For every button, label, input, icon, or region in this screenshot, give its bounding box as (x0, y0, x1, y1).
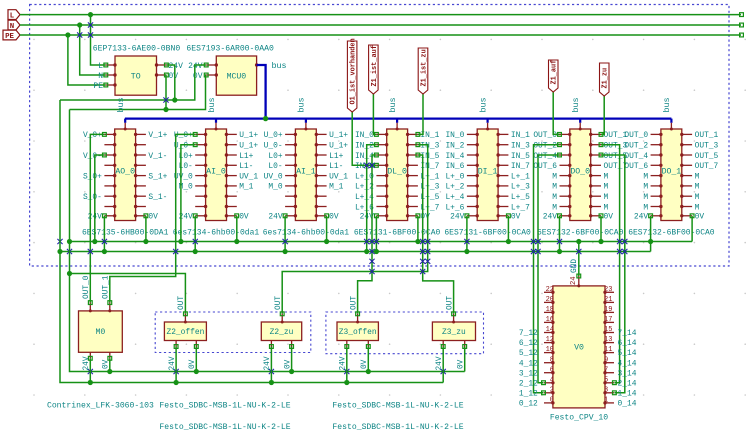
svg-text:PE: PE (93, 82, 103, 91)
wire 24V feeder left (60, 100, 443, 383)
svg-text:0V: 0V (239, 213, 249, 222)
svg-text:13: 13 (604, 336, 612, 344)
svg-text:N: N (98, 72, 103, 81)
svg-text:IN_4: IN_4 (445, 152, 464, 161)
V0 pin 16 (544, 321, 553, 323)
svg-text:V_1-: V_1- (148, 152, 167, 161)
Z2_offen pin OUT (184, 314, 186, 322)
svg-text:U_1+: U_1+ (239, 131, 258, 140)
rail junctions and crossings (102, 239, 107, 244)
global label PE (3, 30, 20, 40)
svg-text:S_0-: S_0- (83, 193, 102, 202)
svg-text:OUT_4: OUT_4 (624, 152, 648, 161)
bus wire MCU0 (257, 65, 266, 119)
svg-text:Z1_ist_auf: Z1_ist_auf (371, 45, 379, 86)
svg-text:24V: 24V (169, 62, 184, 71)
svg-text:11: 11 (604, 346, 612, 354)
svg-text:OUT_5: OUT_5 (695, 152, 719, 161)
svg-text:L+_3: L+_3 (511, 183, 530, 192)
sheet boundary dashed rectangle (30, 5, 729, 267)
svg-text:0V: 0V (604, 213, 614, 222)
svg-text:4: 4 (550, 376, 554, 384)
svg-text:S_1+: S_1+ (148, 172, 167, 181)
svg-text:bus: bus (297, 97, 307, 112)
wire GND to V0 pin 24 (578, 242, 580, 277)
svg-text:6es7134-6hb00-0da1: 6es7134-6hb00-0da1 (173, 228, 260, 237)
svg-text:Z1_zu: Z1_zu (602, 68, 610, 89)
svg-text:14: 14 (546, 326, 554, 334)
V0 pin 22 (544, 291, 553, 293)
svg-text:2_12: 2_12 (519, 379, 538, 388)
svg-text:3: 3 (604, 386, 608, 394)
svg-text:0V: 0V (420, 213, 430, 222)
wire 24V TO to MCU0 (166, 65, 174, 100)
sensor Z2_offen Festo_SDBC-MSB-1L-NU-K-2-LE (164, 322, 206, 341)
svg-text:L+_2: L+_2 (445, 183, 464, 192)
MCU0 pin 0V (206, 74, 216, 76)
svg-text:M: M (695, 183, 700, 192)
svg-text:1_12: 1_12 (519, 389, 538, 398)
TO pin 24V (157, 64, 167, 66)
TO pin N (106, 74, 115, 76)
svg-text:M: M (552, 203, 557, 212)
svg-text:9: 9 (604, 356, 608, 364)
V0 pin 13 (605, 342, 614, 344)
svg-text:DL_0: DL_0 (387, 167, 407, 176)
wire PE to TO (68, 35, 106, 85)
svg-text:6ES7132-6BF00-0CA0: 6ES7132-6BF00-0CA0 (628, 228, 715, 237)
valve terminal V0 Festo_CPV_10 (550, 286, 608, 423)
Z2_offen pin 0V (195, 341, 197, 347)
svg-text:V_1+: V_1+ (148, 131, 167, 140)
svg-text:bus: bus (478, 97, 488, 112)
svg-text:OUT_6: OUT_6 (533, 162, 557, 171)
svg-text:M: M (604, 203, 609, 212)
global label Z1_auf (549, 60, 559, 92)
junction N (77, 22, 82, 27)
svg-text:U_0-: U_0- (174, 142, 193, 151)
TO pin L (106, 64, 115, 66)
svg-text:Contrinex_LFK-3060-103: Contrinex_LFK-3060-103 (47, 402, 154, 411)
Z2_zu pin OUT (281, 314, 283, 322)
svg-text:0_12: 0_12 (519, 400, 538, 409)
wire N to TO (80, 25, 106, 75)
svg-text:bus: bus (116, 97, 126, 112)
svg-text:M: M (643, 172, 648, 181)
svg-text:M: M (604, 193, 609, 202)
global label Z1_ist_zu (418, 48, 428, 94)
svg-text:bus: bus (571, 97, 581, 112)
0V rail (70, 241, 693, 243)
svg-text:Festo_CPV_10: Festo_CPV_10 (550, 414, 608, 423)
svg-text:L+_7: L+_7 (511, 203, 530, 212)
svg-text:2_14: 2_14 (618, 379, 637, 388)
wire N (20, 24, 741, 26)
svg-text:M: M (643, 203, 648, 212)
svg-text:L+_0: L+_0 (445, 172, 464, 181)
module AI_0 6es7134-6hb00-0da1 (173, 97, 260, 237)
wire L (20, 14, 741, 16)
V0 connected pin squares (542, 381, 546, 385)
V0 pin 12 (544, 342, 553, 344)
bottom rails marks (88, 369, 93, 374)
svg-text:6ES7193-6AR00-0AA0: 6ES7193-6AR00-0AA0 (186, 45, 274, 54)
junction 0V (163, 107, 168, 112)
svg-text:24V: 24V (268, 213, 282, 222)
svg-text:IN_6: IN_6 (445, 162, 464, 171)
svg-text:L+_4: L+_4 (445, 193, 464, 202)
svg-text:OUT_1: OUT_1 (103, 275, 111, 299)
svg-text:4_14: 4_14 (618, 359, 637, 368)
svg-text:bus: bus (388, 97, 398, 112)
svg-text:12: 12 (546, 336, 554, 344)
V0 pin 18 (544, 311, 553, 313)
wire DO_0.OUT_3 to V0 pin 5 (601, 145, 620, 383)
svg-text:L1-: L1- (329, 162, 343, 171)
svg-text:0V: 0V (329, 213, 339, 222)
svg-text:TO: TO (131, 73, 141, 82)
svg-text:M: M (695, 193, 700, 202)
wire O1_ist_vorhanden to DL_0.IN_6 (352, 112, 376, 165)
svg-text:V_0-: V_0- (83, 152, 102, 161)
svg-text:0: 0 (550, 397, 554, 405)
svg-text:0V: 0V (169, 72, 179, 81)
svg-text:10: 10 (546, 346, 554, 354)
svg-text:L+_1: L+_1 (511, 172, 530, 181)
wire Z1_ist_zu to DL_0.IN_1 (418, 94, 423, 134)
V0 pin 1 (605, 402, 614, 404)
svg-text:S_1-: S_1- (148, 193, 167, 202)
svg-text:M: M (552, 183, 557, 192)
svg-text:L1-: L1- (239, 162, 253, 171)
V0 pin 0 (544, 402, 553, 404)
V0 pin 2 (544, 392, 553, 394)
group Z2 dashed rectangle (155, 312, 311, 353)
svg-text:5_12: 5_12 (519, 349, 538, 358)
svg-text:OUT_2: OUT_2 (533, 142, 557, 151)
svg-text:OUT: OUT (275, 296, 283, 310)
V0 pin 11 (605, 352, 614, 354)
svg-text:MCU0: MCU0 (227, 73, 247, 82)
svg-text:6es7134-6hb00-0da1: 6es7134-6hb00-0da1 (263, 228, 350, 237)
svg-text:V_0+: V_0+ (83, 131, 102, 140)
M0 pin OUT_1 (109, 303, 111, 311)
svg-text:OUT_0: OUT_0 (624, 131, 648, 140)
crossing 0V over 24V (163, 97, 168, 102)
svg-text:U_0+: U_0+ (174, 131, 193, 140)
svg-text:UV_1: UV_1 (239, 172, 258, 181)
svg-text:M_0: M_0 (268, 183, 282, 192)
svg-text:M: M (552, 172, 557, 181)
svg-text:UV_0: UV_0 (264, 172, 283, 181)
wire DL_0.IN_4 to Z3_offen.OUT (358, 155, 377, 314)
V0 pin 17 (605, 321, 614, 323)
svg-text:OUT: OUT (446, 296, 454, 310)
svg-text:U_0-: U_0- (264, 142, 283, 151)
svg-text:AI_0: AI_0 (206, 167, 226, 176)
svg-text:8: 8 (550, 356, 554, 364)
svg-text:0V: 0V (511, 213, 521, 222)
svg-text:M: M (643, 193, 648, 202)
wire 24V rail A (60, 65, 206, 100)
svg-text:DO_0: DO_0 (570, 167, 590, 176)
svg-text:L1+: L1+ (239, 152, 253, 161)
svg-text:7_12: 7_12 (519, 329, 538, 338)
wire DL_0.IN_5 to Z3_zu.OUT (418, 155, 454, 314)
svg-text:V0: V0 (574, 344, 584, 353)
wire L to TO (91, 15, 106, 65)
svg-text:OUT_1: OUT_1 (695, 131, 719, 140)
svg-text:7: 7 (604, 366, 608, 374)
module DO_1 6ES7132-6BF00-0CA0 (624, 97, 718, 237)
Z2_zu pin 24V (270, 341, 272, 347)
svg-text:L0-: L0- (268, 162, 282, 171)
svg-text:OUT_3: OUT_3 (695, 142, 719, 151)
group Z3 dashed rectangle (326, 312, 484, 354)
V0 pin 4 (544, 382, 553, 384)
svg-text:OUT_7: OUT_7 (695, 162, 719, 171)
module DO_0 6ES7132-6BF00-0CA0 (533, 97, 627, 237)
svg-text:M_1: M_1 (329, 183, 343, 192)
MCU0 pin 24V (206, 64, 216, 66)
Z2_offen pin 24V (175, 341, 177, 347)
svg-text:1: 1 (604, 397, 608, 405)
V0 pin 23 (605, 291, 614, 293)
module AO_0 6ES7135-6HB00-0DA1 (82, 97, 169, 237)
bus horizontal (125, 117, 672, 119)
svg-text:DO_1: DO_1 (662, 167, 682, 176)
global label L (8, 10, 20, 20)
svg-text:UV_1: UV_1 (329, 172, 348, 181)
svg-text:15: 15 (604, 326, 612, 334)
svg-text:7_14: 7_14 (618, 329, 637, 338)
junction L (88, 12, 93, 17)
global label O1_ist_vorhanden (347, 41, 357, 112)
svg-text:UV_0: UV_0 (174, 172, 193, 181)
svg-text:M0: M0 (95, 328, 105, 337)
bus junction (263, 116, 268, 121)
svg-text:M: M (552, 193, 557, 202)
svg-text:24: 24 (570, 276, 578, 285)
svg-text:6: 6 (550, 366, 554, 374)
svg-text:U_0+: U_0+ (264, 131, 283, 140)
svg-text:L: L (98, 62, 103, 71)
svg-text:6EP7133-6AE00-0BN0: 6EP7133-6AE00-0BN0 (93, 45, 181, 54)
svg-text:0V: 0V (695, 213, 705, 222)
svg-text:Z3_zu: Z3_zu (442, 328, 466, 337)
global label N (8, 20, 20, 30)
svg-text:S_0+: S_0+ (83, 172, 102, 181)
svg-text:1_14: 1_14 (618, 389, 637, 398)
svg-text:24V: 24V (543, 213, 557, 222)
wire 0V feeder left (70, 110, 465, 372)
svg-text:IN_2: IN_2 (445, 142, 464, 151)
V0 pin 5 (605, 382, 614, 384)
svg-text:L: L (10, 13, 15, 21)
svg-text:M: M (695, 203, 700, 212)
wire Z2_offen.OUT horizontal (70, 274, 186, 314)
svg-text:0V: 0V (148, 213, 158, 222)
svg-text:DI_1: DI_1 (478, 167, 498, 176)
Z3_offen pin 0V (367, 341, 369, 347)
wire DO_0.OUT_4 to V0 pin 4 (538, 155, 560, 383)
svg-text:24V: 24V (634, 213, 648, 222)
svg-text:IN_2: IN_2 (355, 142, 374, 151)
V0 pin 3 (605, 392, 614, 394)
svg-text:OUT_6: OUT_6 (624, 162, 648, 171)
wire Z1_ist_auf to DL_0.IN_0 (373, 94, 376, 134)
MCU0 pin bus (255, 63, 258, 66)
sensor Z3_offen Festo_SDBC-MSB-1L-NU-K-2-LE (337, 322, 378, 341)
wire M0.OUT_0 to AO_0.V_0+ (90, 134, 104, 302)
svg-text:OUT_2: OUT_2 (624, 142, 648, 151)
svg-text:IN_7: IN_7 (511, 162, 530, 171)
svg-text:L1+: L1+ (329, 152, 343, 161)
svg-text:L0+: L0+ (268, 152, 282, 161)
rail feed junctions (67, 239, 72, 244)
svg-text:17: 17 (604, 316, 612, 324)
24V rail (60, 251, 651, 253)
svg-text:3_14: 3_14 (618, 369, 637, 378)
svg-text:Festo_SDBC-MSB-1L-NU-K-2-LE: Festo_SDBC-MSB-1L-NU-K-2-LE (159, 423, 290, 432)
svg-text:M: M (604, 172, 609, 181)
svg-text:Z2_zu: Z2_zu (270, 328, 294, 337)
Z3_zu pin 0V (464, 341, 466, 347)
crossing marks top wires (88, 22, 93, 27)
svg-text:AO_0: AO_0 (115, 167, 135, 176)
svg-text:3_12: 3_12 (519, 369, 538, 378)
svg-text:6ES7131-6BF00-0CA0: 6ES7131-6BF00-0CA0 (444, 228, 531, 237)
svg-text:OUT_4: OUT_4 (533, 152, 557, 161)
V0 pin 14 (544, 332, 553, 334)
svg-text:5: 5 (604, 376, 608, 384)
svg-text:24V: 24V (450, 213, 464, 222)
junction PE (65, 32, 70, 37)
module DI_1 6ES7131-6BF00-0CA0 (444, 97, 531, 237)
svg-text:AI_1: AI_1 (296, 167, 316, 176)
global label Z1_ist_auf (369, 45, 379, 94)
M0 pin OUT_0 (89, 303, 91, 311)
sensor Z2_zu (261, 322, 301, 341)
svg-text:6_14: 6_14 (618, 339, 637, 348)
svg-text:U_1+: U_1+ (239, 142, 258, 151)
svg-text:Festo_SDBC-MSB-1L-NU-K-2-LE: Festo_SDBC-MSB-1L-NU-K-2-LE (332, 423, 463, 432)
svg-text:22: 22 (546, 286, 554, 294)
global label Z1_zu (600, 63, 610, 96)
wire 0V TO down (165, 75, 167, 110)
svg-text:Z3_offen: Z3_offen (339, 328, 377, 337)
V0 pin 8 (544, 362, 553, 364)
wire DO_0.OUT_2 to V0 pin 2 (534, 145, 560, 393)
svg-text:19: 19 (604, 306, 612, 314)
svg-text:2: 2 (550, 386, 554, 394)
svg-text:U_1+: U_1+ (329, 131, 348, 140)
svg-text:OUT_0: OUT_0 (83, 275, 91, 299)
Z3_offen pin 24V (346, 341, 348, 347)
Z3_zu pin 24V (442, 341, 444, 347)
svg-text:18: 18 (546, 306, 554, 314)
svg-text:0_14: 0_14 (618, 400, 637, 409)
M0 pin 0V (109, 352, 111, 358)
V0 pin 10 (544, 352, 553, 354)
V0 pin 20 (544, 301, 553, 303)
wire 0V rail B (70, 75, 207, 110)
svg-text:23: 23 (604, 286, 612, 294)
svg-text:bus: bus (662, 97, 672, 112)
svg-text:OUT: OUT (350, 296, 358, 310)
wire DL_0.IN_3 to H1 (282, 145, 428, 314)
wire DL_0.IN_2 to 24V rail (367, 145, 377, 252)
V0 pin 15 (605, 332, 614, 334)
V0 pin 24 top (578, 276, 580, 286)
svg-text:M: M (695, 172, 700, 181)
svg-text:PE: PE (5, 33, 14, 41)
svg-text:GND: GND (571, 259, 579, 273)
V0 pin 6 (544, 372, 553, 374)
module 24V drops (103, 216, 105, 252)
Z3_zu pin OUT (453, 314, 455, 322)
module 0V drops (145, 216, 147, 242)
svg-text:IN_5: IN_5 (511, 152, 530, 161)
svg-text:6_12: 6_12 (519, 339, 538, 348)
junction 24V (172, 97, 177, 102)
svg-text:O1_ist_vorhanden: O1_ist_vorhanden (350, 38, 358, 104)
module DL_0 6ES7131-6BF00-0CA0 (354, 97, 441, 237)
svg-text:OUT: OUT (178, 296, 186, 310)
sensor Z3_zu (432, 322, 475, 341)
wire PE (20, 34, 741, 36)
wire Z1_auf to DO_0.OUT_0 (553, 92, 559, 134)
V0 pin 7 (605, 372, 614, 374)
svg-text:bus: bus (207, 97, 217, 112)
wire DO_0.OUT_5 to V0 pin 3 (601, 155, 625, 393)
svg-text:bus: bus (272, 61, 287, 71)
svg-text:L+_5: L+_5 (511, 193, 530, 202)
svg-text:6ES7132-6BF00-0CA0: 6ES7132-6BF00-0CA0 (537, 228, 624, 237)
svg-text:IN_3: IN_3 (511, 142, 530, 151)
svg-text:IN_0: IN_0 (445, 131, 464, 140)
svg-text:Z1_auf: Z1_auf (551, 60, 559, 85)
svg-text:M: M (604, 183, 609, 192)
Z2_zu pin 0V (291, 341, 293, 347)
wire AO_0.V_0- to 0V rail (95, 155, 105, 242)
Z3_offen pin OUT (357, 314, 359, 322)
svg-text:16: 16 (546, 316, 554, 324)
sensor M0 Contrinex_LFK-3060-103 (47, 311, 154, 411)
module AI_1 6es7134-6hb00-0da1 (263, 97, 350, 237)
svg-text:L+_6: L+_6 (445, 203, 464, 212)
svg-text:IN_0: IN_0 (355, 131, 374, 140)
TO pin PE (106, 84, 115, 86)
svg-text:M_1: M_1 (239, 183, 253, 192)
M0 pin 24V (89, 352, 91, 358)
svg-text:20: 20 (546, 296, 554, 304)
svg-text:21: 21 (604, 296, 612, 304)
svg-text:IN_1: IN_1 (511, 131, 530, 140)
svg-text:4_12: 4_12 (519, 359, 538, 368)
TO pin 0V (157, 74, 167, 76)
svg-text:U_1+: U_1+ (329, 142, 348, 151)
svg-text:M: M (643, 183, 648, 192)
V0 pin 21 (605, 301, 614, 303)
V0 pin 9 (605, 362, 614, 364)
svg-text:5_14: 5_14 (618, 349, 637, 358)
svg-text:Festo_SDBC-MSB-1L-NU-K-2-LE: Festo_SDBC-MSB-1L-NU-K-2-LE (332, 402, 463, 411)
wire Z1_zu to DO_0.OUT_1 (601, 96, 604, 134)
svg-text:Z1_ist_zu: Z1_ist_zu (420, 49, 428, 86)
svg-text:Festo_SDBC-MSB-1L-NU-K-2-LE: Festo_SDBC-MSB-1L-NU-K-2-LE (159, 402, 290, 411)
svg-text:Z2_offen: Z2_offen (166, 328, 204, 337)
